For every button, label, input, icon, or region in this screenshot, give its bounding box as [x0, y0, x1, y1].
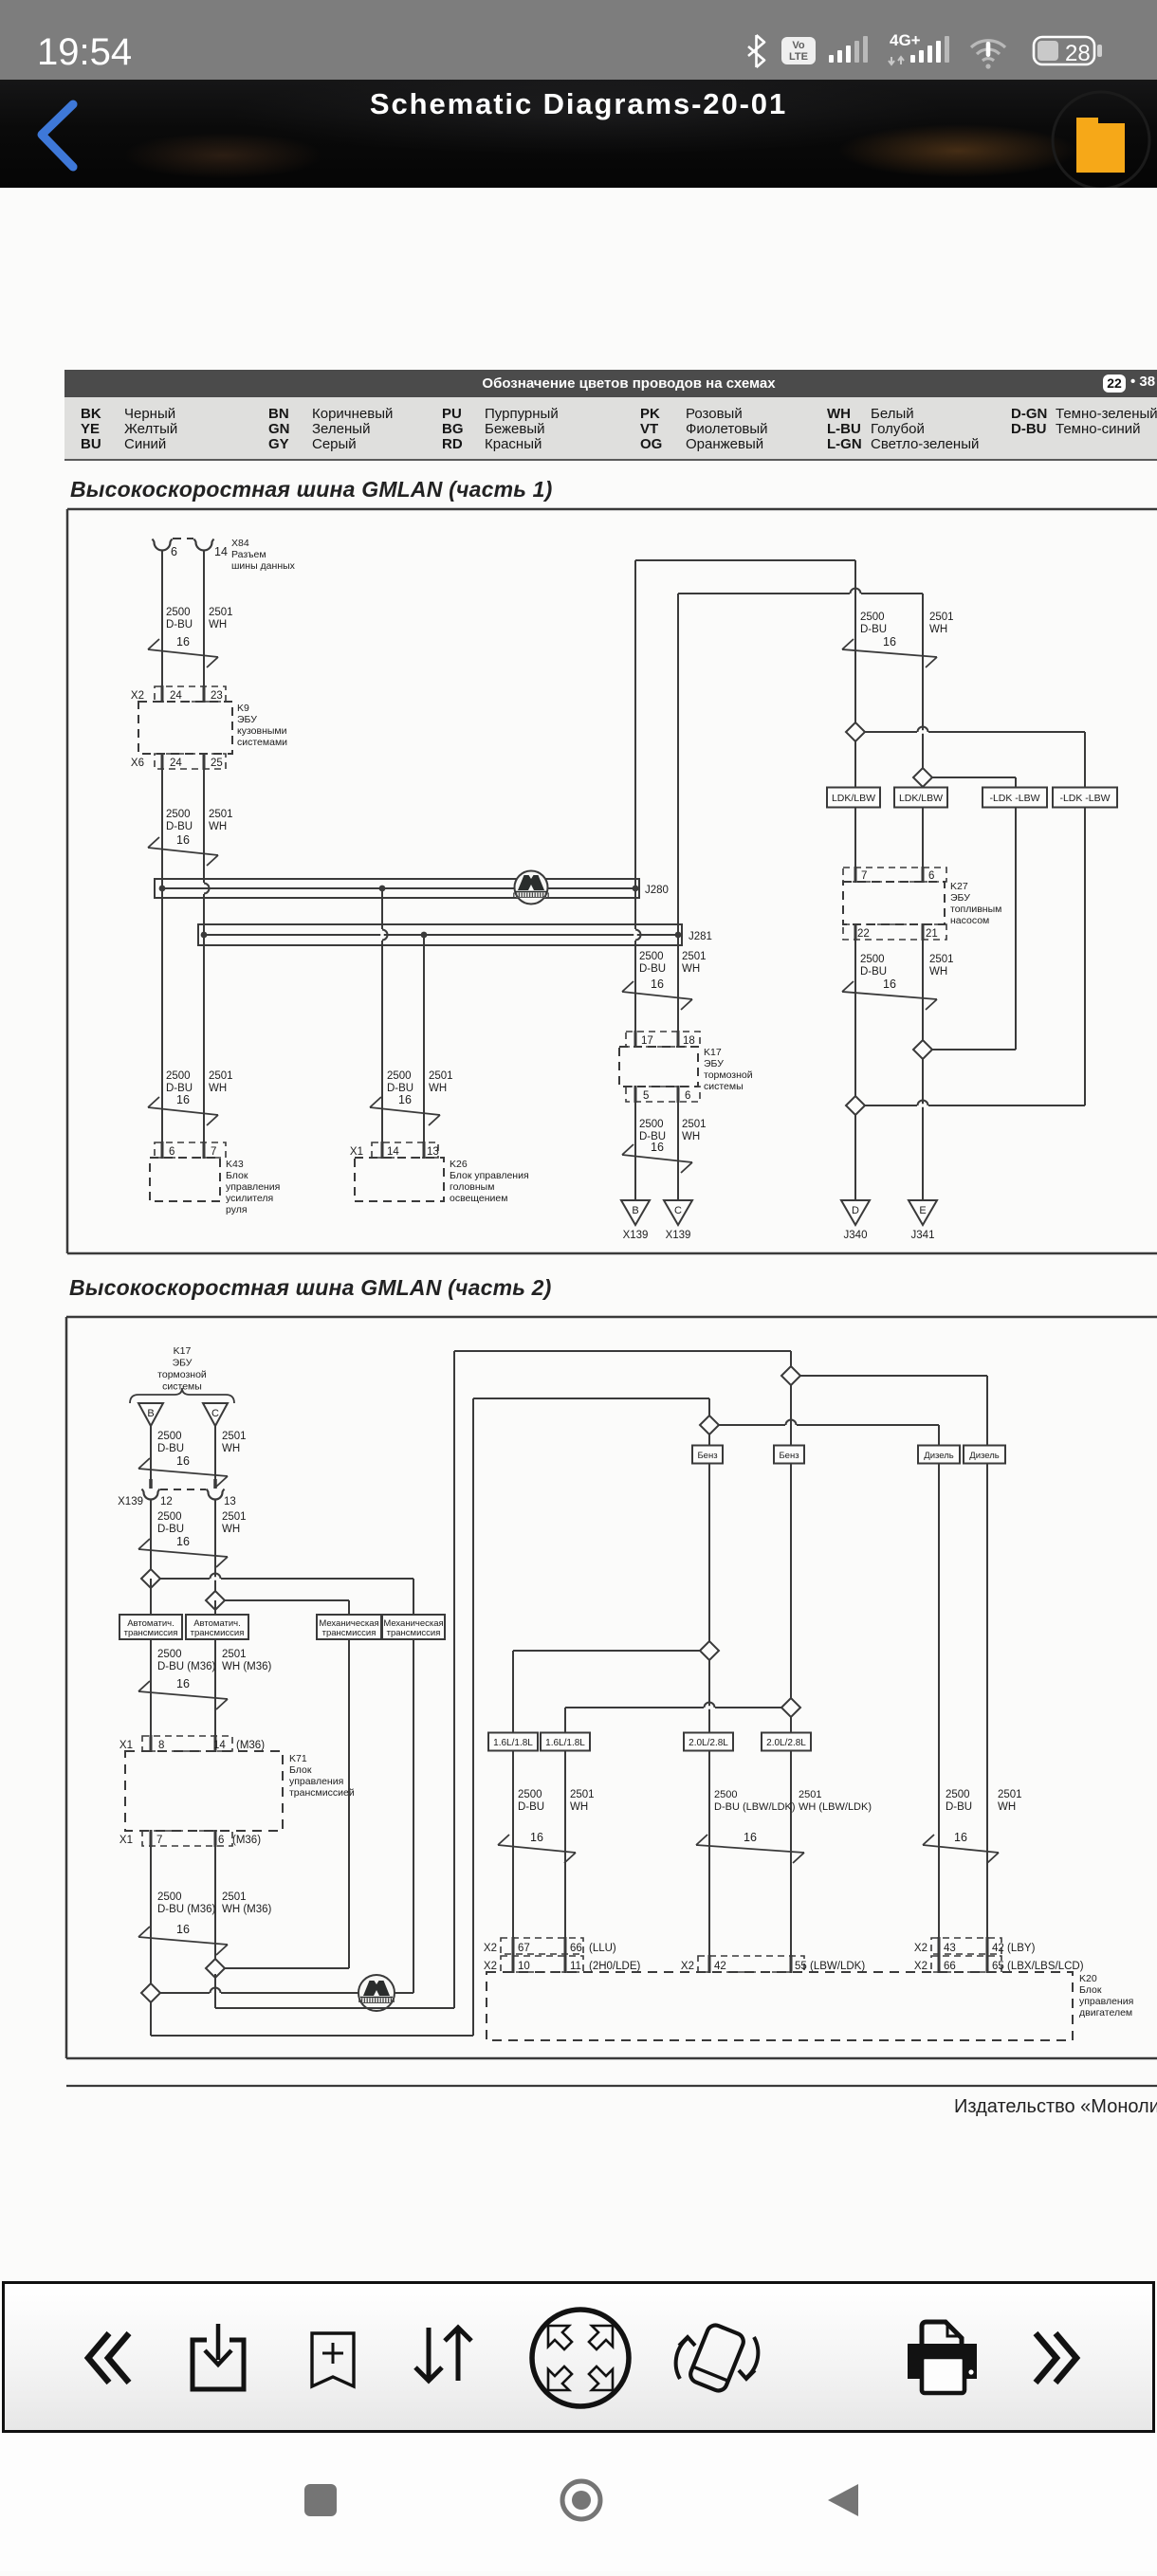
svg-text:Дизель: Дизель: [969, 1451, 1000, 1461]
svg-text:6: 6: [928, 870, 934, 882]
svg-text:X2: X2: [681, 1961, 694, 1972]
svg-text:WH: WH: [209, 1083, 227, 1094]
svg-text:WH (LBW/LDK): WH (LBW/LDK): [799, 1801, 872, 1813]
svg-text:X2: X2: [914, 1943, 927, 1954]
svg-text:2501: 2501: [682, 951, 707, 962]
svg-text:кузовными: кузовными: [237, 725, 287, 737]
svg-text:D-BU: D-BU: [166, 821, 193, 832]
svg-text:K27: K27: [950, 881, 968, 892]
svg-text:2500: 2500: [946, 1789, 970, 1800]
svg-text:2500: 2500: [166, 1070, 191, 1082]
svg-text:E: E: [919, 1205, 926, 1216]
svg-text:насосом: насосом: [950, 915, 989, 926]
svg-text:C: C: [211, 1408, 219, 1419]
svg-text:67: 67: [518, 1943, 530, 1954]
svg-text:WH: WH: [929, 624, 947, 635]
svg-text:2500: 2500: [157, 1649, 182, 1660]
svg-text:2501: 2501: [222, 1649, 247, 1660]
svg-text:X2: X2: [914, 1961, 927, 1972]
svg-text:головным: головным: [450, 1181, 494, 1193]
svg-text:D-BU: D-BU: [946, 1801, 972, 1813]
svg-text:13: 13: [427, 1146, 439, 1158]
svg-text:(LBX/LBS/LCD): (LBX/LBS/LCD): [1007, 1961, 1084, 1972]
svg-text:тормозной: тормозной: [157, 1369, 207, 1380]
svg-text:J281: J281: [689, 931, 712, 942]
svg-text:B: B: [632, 1205, 638, 1216]
svg-text:D-BU (LBW/LDK): D-BU (LBW/LDK): [714, 1801, 796, 1813]
svg-text:17: 17: [641, 1035, 653, 1047]
svg-text:Бенз: Бенз: [779, 1451, 799, 1461]
svg-text:LDK/LBW: LDK/LBW: [832, 793, 875, 804]
svg-text:K20: K20: [1079, 1973, 1097, 1984]
svg-text:усилителя: усилителя: [226, 1193, 273, 1204]
svg-text:ЭБУ: ЭБУ: [704, 1058, 724, 1069]
svg-text:WH: WH: [998, 1801, 1016, 1813]
svg-text:шины данных: шины данных: [231, 560, 296, 572]
svg-text:X1: X1: [119, 1835, 133, 1846]
svg-text:2501: 2501: [209, 809, 233, 820]
svg-text:WH: WH: [929, 966, 947, 977]
svg-text:2501: 2501: [929, 954, 954, 965]
svg-text:(LBW/LDK): (LBW/LDK): [810, 1961, 865, 1972]
svg-text:2501: 2501: [209, 607, 233, 618]
svg-text:2500: 2500: [166, 809, 191, 820]
svg-text:D-BU: D-BU: [157, 1443, 184, 1454]
svg-text:2500: 2500: [166, 607, 191, 618]
svg-text:(2H0/LDE): (2H0/LDE): [589, 1961, 640, 1972]
svg-text:Блок: Блок: [289, 1764, 312, 1776]
svg-text:5: 5: [643, 1090, 649, 1102]
svg-text:16: 16: [176, 1093, 190, 1106]
svg-text:X1: X1: [119, 1740, 133, 1751]
svg-text:10: 10: [518, 1961, 530, 1972]
svg-text:22: 22: [857, 928, 870, 940]
svg-text:Блок: Блок: [226, 1170, 248, 1181]
svg-text:25: 25: [211, 758, 223, 769]
svg-text:Разъем: Разъем: [231, 549, 266, 560]
svg-text:руля: руля: [226, 1204, 248, 1215]
svg-text:управления: управления: [289, 1776, 343, 1787]
svg-text:2500: 2500: [518, 1789, 542, 1800]
svg-text:16: 16: [176, 1923, 190, 1936]
svg-text:WH: WH: [222, 1443, 240, 1454]
svg-text:X6: X6: [131, 758, 144, 769]
svg-text:2501: 2501: [429, 1070, 453, 1082]
svg-text:D: D: [852, 1205, 859, 1216]
svg-text:16: 16: [954, 1831, 967, 1844]
svg-text:WH: WH: [682, 1131, 700, 1142]
svg-text:2500: 2500: [860, 612, 885, 623]
svg-text:16: 16: [651, 977, 664, 991]
svg-text:8: 8: [158, 1740, 164, 1751]
svg-text:7: 7: [861, 870, 867, 882]
svg-text:X1: X1: [350, 1146, 363, 1158]
svg-text:трансмиссия: трансмиссия: [322, 1628, 376, 1638]
svg-text:D-BU (M36): D-BU (M36): [157, 1904, 216, 1915]
svg-text:K43: K43: [226, 1159, 244, 1170]
svg-text:6: 6: [218, 1835, 224, 1846]
svg-text:WH: WH: [682, 963, 700, 975]
svg-text:-LDK -LBW: -LDK -LBW: [1059, 793, 1110, 804]
svg-text:J341: J341: [911, 1230, 935, 1241]
svg-text:6: 6: [169, 1146, 174, 1158]
svg-text:(LBY): (LBY): [1007, 1943, 1036, 1954]
svg-text:24: 24: [170, 758, 182, 769]
svg-text:двигателем: двигателем: [1079, 2007, 1132, 2019]
svg-text:тормозной: тормозной: [704, 1069, 753, 1081]
svg-text:1.6L/1.8L: 1.6L/1.8L: [545, 1738, 585, 1748]
svg-text:(M36): (M36): [232, 1835, 261, 1846]
svg-text:66: 66: [570, 1943, 582, 1954]
svg-text:K17: K17: [174, 1345, 192, 1357]
svg-text:трансмиссия: трансмиссия: [387, 1628, 441, 1638]
svg-text:X139: X139: [623, 1230, 649, 1241]
svg-text:D-BU: D-BU: [860, 966, 887, 977]
svg-text:топливным: топливным: [950, 904, 1001, 915]
svg-text:D-BU: D-BU: [860, 624, 887, 635]
svg-text:освещением: освещением: [450, 1193, 507, 1204]
svg-text:K17: K17: [704, 1047, 722, 1058]
svg-text:23: 23: [211, 690, 223, 702]
svg-text:WH: WH: [209, 619, 227, 630]
svg-text:Блок управления: Блок управления: [450, 1170, 529, 1181]
svg-text:J340: J340: [844, 1230, 868, 1241]
svg-text:42: 42: [992, 1943, 1004, 1954]
svg-text:12: 12: [160, 1496, 173, 1507]
svg-text:системами: системами: [237, 737, 287, 748]
svg-text:6: 6: [171, 545, 177, 558]
svg-text:WH: WH: [222, 1524, 240, 1535]
svg-text:2501: 2501: [799, 1789, 821, 1800]
svg-text:18: 18: [683, 1035, 695, 1047]
svg-text:2500: 2500: [157, 1431, 182, 1442]
svg-text:7: 7: [156, 1835, 162, 1846]
svg-text:Бенз: Бенз: [697, 1451, 717, 1461]
svg-text:2500: 2500: [860, 954, 885, 965]
svg-text:2501: 2501: [222, 1431, 247, 1442]
svg-text:13: 13: [224, 1496, 236, 1507]
svg-text:управления: управления: [226, 1181, 280, 1193]
svg-text:WH: WH: [209, 821, 227, 832]
svg-text:2501: 2501: [929, 612, 954, 623]
svg-text:X139: X139: [666, 1230, 691, 1241]
svg-text:43: 43: [944, 1943, 956, 1954]
svg-text:65: 65: [992, 1961, 1004, 1972]
svg-text:J280: J280: [645, 885, 669, 896]
svg-text:11: 11: [570, 1961, 581, 1972]
svg-text:управления: управления: [1079, 1996, 1133, 2007]
svg-text:2501: 2501: [570, 1789, 595, 1800]
svg-text:трансмиссия: трансмиссия: [124, 1628, 178, 1638]
svg-text:системы: системы: [704, 1081, 744, 1092]
svg-text:16: 16: [651, 1141, 664, 1154]
svg-text:16: 16: [398, 1093, 412, 1106]
svg-text:16: 16: [744, 1831, 757, 1844]
svg-text:16: 16: [176, 1677, 190, 1690]
svg-text:D-BU: D-BU: [166, 619, 193, 630]
svg-text:X84: X84: [231, 538, 249, 549]
svg-text:WH: WH: [570, 1801, 588, 1813]
svg-text:ЭБУ: ЭБУ: [173, 1358, 193, 1369]
svg-text:2500: 2500: [714, 1789, 737, 1800]
svg-text:21: 21: [926, 928, 938, 940]
svg-text:2500: 2500: [157, 1891, 182, 1903]
svg-text:14: 14: [387, 1146, 399, 1158]
svg-text:16: 16: [176, 833, 190, 847]
svg-text:2500: 2500: [157, 1511, 182, 1523]
svg-text:2500: 2500: [387, 1070, 412, 1082]
svg-text:D-BU (M36): D-BU (M36): [157, 1661, 216, 1672]
svg-text:1.6L/1.8L: 1.6L/1.8L: [493, 1738, 533, 1748]
svg-text:X2: X2: [484, 1943, 497, 1954]
svg-text:Блок: Блок: [1079, 1984, 1102, 1996]
svg-text:2.0L/2.8L: 2.0L/2.8L: [689, 1738, 728, 1748]
svg-text:2501: 2501: [998, 1789, 1022, 1800]
svg-text:42: 42: [714, 1961, 726, 1972]
svg-text:WH (M36): WH (M36): [222, 1661, 272, 1672]
svg-text:K71: K71: [289, 1753, 307, 1764]
svg-text:2.0L/2.8L: 2.0L/2.8L: [766, 1738, 806, 1748]
svg-text:K26: K26: [450, 1159, 468, 1170]
svg-text:WH: WH: [429, 1083, 447, 1094]
svg-text:LDK/LBW: LDK/LBW: [899, 793, 943, 804]
svg-text:16: 16: [176, 1535, 190, 1548]
svg-text:16: 16: [530, 1831, 543, 1844]
svg-text:16: 16: [883, 635, 896, 649]
svg-text:14: 14: [214, 545, 228, 558]
svg-text:K9: K9: [237, 703, 249, 714]
svg-text:D-BU: D-BU: [157, 1524, 184, 1535]
svg-text:X139: X139: [118, 1496, 143, 1507]
svg-text:66: 66: [944, 1961, 956, 1972]
svg-text:16: 16: [176, 635, 190, 649]
svg-text:2500: 2500: [639, 951, 664, 962]
svg-text:ЭБУ: ЭБУ: [950, 892, 970, 904]
svg-text:B: B: [147, 1408, 154, 1419]
svg-text:16: 16: [883, 977, 896, 991]
svg-text:(M36): (M36): [236, 1740, 265, 1751]
svg-text:55: 55: [795, 1961, 807, 1972]
svg-text:7: 7: [211, 1146, 216, 1158]
svg-text:Дизель: Дизель: [924, 1451, 954, 1461]
svg-text:2501: 2501: [682, 1119, 707, 1130]
svg-text:X2: X2: [131, 690, 144, 702]
svg-text:16: 16: [176, 1454, 190, 1468]
svg-text:трансмиссией: трансмиссией: [289, 1787, 355, 1799]
svg-text:2500: 2500: [639, 1119, 664, 1130]
svg-text:14: 14: [213, 1740, 226, 1751]
svg-text:C: C: [674, 1205, 682, 1216]
svg-text:2501: 2501: [222, 1511, 247, 1523]
svg-text:6: 6: [685, 1090, 690, 1102]
svg-text:D-BU: D-BU: [639, 963, 666, 975]
svg-text:24: 24: [170, 690, 182, 702]
svg-text:-LDK -LBW: -LDK -LBW: [989, 793, 1039, 804]
svg-text:WH (M36): WH (M36): [222, 1904, 272, 1915]
svg-text:X2: X2: [484, 1961, 497, 1972]
svg-text:2501: 2501: [209, 1070, 233, 1082]
svg-text:ЭБУ: ЭБУ: [237, 714, 257, 725]
svg-text:2501: 2501: [222, 1891, 247, 1903]
svg-text:трансмиссия: трансмиссия: [191, 1628, 245, 1638]
svg-text:(LLU): (LLU): [589, 1943, 616, 1954]
svg-text:D-BU: D-BU: [518, 1801, 544, 1813]
